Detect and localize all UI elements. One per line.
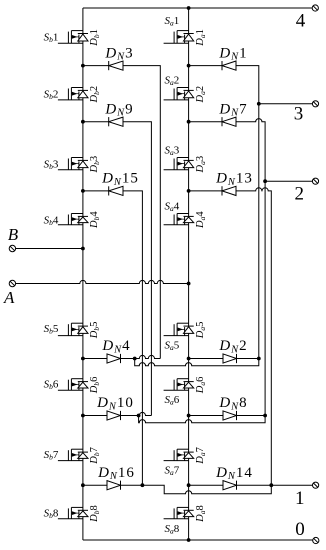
junction tap 1 bbox=[269, 483, 273, 487]
transistor S_a2 bbox=[164, 88, 194, 100]
svg-text:3: 3 bbox=[294, 104, 304, 125]
wire: tap 1 to terminal bbox=[271, 484, 312, 486]
terminal 3 bbox=[312, 101, 318, 107]
diode D_N10 bbox=[107, 411, 121, 420]
wire: D_N16 row with step-down to tap1 bbox=[83, 485, 271, 494]
diode D_N3 bbox=[109, 61, 123, 70]
junction tap 2 bbox=[263, 179, 267, 183]
diode D_N9 bbox=[109, 117, 123, 126]
transistor S_b6 bbox=[58, 379, 88, 391]
junction node B on S_b string bbox=[81, 247, 85, 251]
terminal 2 bbox=[312, 178, 318, 184]
wire: D_N1 row to bus (tap 3 bus) bbox=[189, 66, 259, 359]
wire: D_N14 row bbox=[189, 484, 272, 486]
terminal A bbox=[9, 280, 15, 286]
junction S_a string / bottom rail bbox=[187, 538, 191, 542]
svg-text:A: A bbox=[3, 288, 15, 307]
svg-text:0: 0 bbox=[295, 519, 305, 540]
wire: terminal B to S_b string midpoint bbox=[16, 248, 83, 250]
junction S_b7-S_b8 / D_N16 bbox=[81, 483, 85, 487]
junction tap 3 bbox=[257, 102, 261, 106]
wire: D_N7 row to bus (tap 2 bus) bbox=[189, 119, 266, 416]
junction S_a6-S_a7 / D_N8 bbox=[187, 414, 191, 418]
terminal 0 bbox=[313, 537, 319, 543]
junction D_N4 node bbox=[133, 357, 137, 361]
junction S_b5-S_b6 / D_N4 bbox=[81, 357, 85, 361]
wire: D_N4 row (S_b5/S_b6 junction to node) bbox=[83, 358, 135, 360]
junction node A on S_a string bbox=[187, 282, 191, 286]
junction S_a5-S_a6 / D_N2 bbox=[187, 357, 191, 361]
wire: D_N9 row to bus bbox=[83, 122, 151, 416]
junction S_b6-S_b7 / D_N10 bbox=[81, 414, 85, 418]
wire: S_b column bbox=[82, 8, 84, 540]
terminal B bbox=[9, 245, 15, 251]
wire: D_N15 row to bus bbox=[83, 191, 142, 485]
transistor S_a6 bbox=[164, 379, 194, 391]
transistor S_b7 bbox=[58, 449, 88, 460]
diode D_N1 bbox=[222, 61, 236, 70]
diode D_N16 bbox=[107, 481, 121, 490]
diode D_N15 bbox=[109, 186, 123, 195]
diode D_N8 bbox=[223, 411, 237, 420]
diode D_N13 bbox=[222, 186, 236, 195]
svg-text:B: B bbox=[8, 225, 19, 244]
wire: S_a column bbox=[188, 8, 190, 540]
junction S_a string / top rail bbox=[187, 6, 191, 10]
junction S_b1-S_b2 / D_N3 bbox=[81, 64, 85, 68]
svg-text:1: 1 bbox=[295, 488, 305, 509]
transistor S_a5 bbox=[164, 323, 194, 335]
transistor S_a8 bbox=[164, 507, 194, 518]
junction S_b2-S_b3 / D_N9 bbox=[81, 120, 85, 124]
wire: D_N10 node up-branch to D_N9 bus bbox=[139, 412, 152, 415]
transistor S_b5 bbox=[58, 323, 88, 335]
transistor S_b4 bbox=[58, 214, 88, 225]
wire: D_N8 row bbox=[189, 415, 266, 417]
wire: D_N10 row bbox=[83, 415, 139, 417]
transistor S_a4 bbox=[164, 214, 194, 225]
junction S_a7-S_a8 / D_N14 bbox=[187, 483, 191, 487]
junction D_N16 / D_N15 bus bbox=[141, 483, 145, 487]
svg-text:2: 2 bbox=[294, 183, 304, 204]
wire: tap 2 to terminal bbox=[265, 180, 312, 182]
junction D_N10 node bbox=[137, 414, 141, 418]
wire: D_N3 row to bus bbox=[83, 66, 160, 359]
transistor S_b2 bbox=[58, 88, 88, 100]
diode D_N4 bbox=[107, 354, 121, 363]
diode D_N2 bbox=[223, 354, 237, 363]
wire: D_N4 node up-branch to D_N3 bus bbox=[135, 355, 161, 358]
junction D_N8 / tap2 bus bbox=[263, 414, 267, 418]
junction D_N2 / tap3 bus bbox=[257, 357, 261, 361]
transistor S_a3 bbox=[164, 158, 194, 170]
terminal 1 bbox=[313, 482, 319, 488]
wire: D_N10 node lower cross-wire to tap2 bus bbox=[139, 416, 266, 423]
wire: top rail (level 4) bbox=[83, 7, 312, 9]
junction S_a3-S_a4 / D_N13 bbox=[187, 189, 191, 193]
wire: D_N2 row bbox=[189, 358, 259, 360]
svg-text:4: 4 bbox=[296, 11, 306, 32]
wire: terminal A to S_a string midpoint bbox=[16, 280, 189, 283]
wire: bottom rail (level 0) bbox=[83, 539, 313, 541]
diode D_N14 bbox=[223, 481, 237, 490]
wire: tap 3 to terminal bbox=[259, 103, 313, 105]
wire: D_N13 row to bus (tap 1 bus) bbox=[189, 188, 272, 485]
transistor S_b8 bbox=[58, 507, 88, 518]
junction S_b3-S_b4 / D_N15 bbox=[81, 189, 85, 193]
transistor S_b3 bbox=[58, 158, 88, 170]
terminal 4 bbox=[312, 5, 318, 11]
transistor S_b1 bbox=[58, 31, 88, 44]
junction S_a2-S_a3 / D_N7 bbox=[187, 120, 191, 124]
diode D_N7 bbox=[222, 117, 236, 126]
transistor S_a1 bbox=[164, 31, 194, 44]
wire: D_N4 node lower cross-wire to tap3 bus bbox=[135, 359, 259, 366]
transistor S_a7 bbox=[164, 449, 194, 460]
junction S_a1-S_a2 / D_N1 bbox=[187, 64, 191, 68]
